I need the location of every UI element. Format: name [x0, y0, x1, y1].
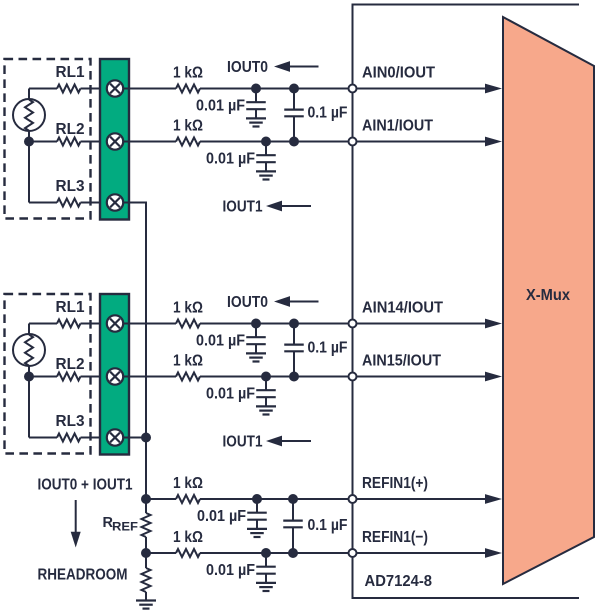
pin node AIN15/IOUT: [349, 373, 357, 381]
svg-text:IOUT0: IOUT0: [227, 294, 268, 311]
terminal 2.2: [107, 368, 123, 384]
capacitor 0.1 µF (rows 88.5-141.5): [293, 89, 295, 110]
wire row AIN1 to mux: [200, 141, 492, 143]
svg-text:AIN14/IOUT: AIN14/IOUT: [362, 300, 443, 317]
svg-text:REF: REF: [112, 520, 138, 534]
wire row AIN15 to mux: [200, 376, 492, 378]
wire RTD1 bottom to RL2 node: [28, 131, 30, 142]
svg-text:1 kΩ: 1 kΩ: [173, 529, 203, 546]
svg-text:1 kΩ: 1 kΩ: [173, 300, 203, 317]
wire RTD2 top to RL1: [28, 324, 30, 335]
ground (cap row 376.5): [256, 405, 276, 407]
resistor 1 kΩ (row AIN15): [176, 373, 200, 381]
junction REFIN1(+) on bus: [141, 494, 151, 504]
capacitor 0.01 µF (REFIN1+): [256, 499, 258, 513]
terminal block 2: [100, 294, 129, 455]
wire node to RL2: [29, 141, 57, 143]
node filter cap 0.01uF row88.5: [251, 84, 261, 94]
svg-text:AIN0/IOUT: AIN0/IOUT: [362, 65, 435, 82]
arrow IOUT1 (block 1): [266, 201, 282, 212]
resistor 1 kΩ (row AIN0): [176, 85, 200, 93]
svg-text:1 kΩ: 1 kΩ: [173, 353, 203, 370]
svg-text:REFIN1(+): REFIN1(+): [362, 475, 428, 492]
svg-text:RL1: RL1: [56, 299, 85, 316]
resistor RL3 (block 1): [57, 199, 81, 207]
wire terminal 1.3 to vertical bus: [123, 202, 146, 204]
node filter cap REFIN1(+): [252, 494, 262, 504]
pin node REFIN1(+): [349, 495, 357, 503]
node RTD1 bottom junction: [24, 137, 34, 147]
svg-text:IOUT0 + IOUT1: IOUT0 + IOUT1: [38, 477, 133, 494]
node 0.1uF bottom row376.5: [289, 372, 299, 382]
capacitor 0.1 µF (rows 323.5-376.5): [293, 324, 295, 345]
capacitor 0.01 µF (row 88.5): [255, 89, 257, 103]
svg-text:RL1: RL1: [56, 64, 85, 81]
wire REFIN1(-) row: [146, 552, 176, 554]
arrowhead into mux REFIN1(-): [485, 548, 502, 558]
resistor RHEADROOM (vertical): [142, 568, 151, 592]
wire RL1 to terminal 2.1: [81, 323, 107, 325]
resistor RL1 (block 1): [57, 85, 81, 93]
svg-text:0.1 µF: 0.1 µF: [308, 340, 348, 357]
junction terminal 2.3 / vertical bus: [141, 433, 151, 443]
resistor 1 kΩ (row AIN14): [176, 320, 200, 328]
capacitor 0.01 µF (REFIN1-): [265, 553, 267, 567]
arrowhead into mux REFIN1(+): [485, 494, 502, 504]
node filter cap 0.01uF row141.5: [261, 137, 271, 147]
terminal 1.1: [107, 80, 123, 96]
wire row AIN14 to mux: [200, 323, 492, 325]
multiplexer X-Mux: [503, 17, 594, 584]
resistor 1 kΩ (REFIN1-): [176, 549, 200, 557]
terminal 2.1: [107, 315, 123, 331]
wire RL3 to terminal 2.3: [81, 437, 107, 439]
svg-text:0.01 µF: 0.01 µF: [206, 386, 255, 403]
wire RL3 to terminal 1.3: [81, 202, 107, 204]
RTD sensor element 2 zigzag: [25, 335, 33, 366]
ground (cap row 141.5): [256, 170, 276, 172]
wire REFIN1(-) to mux: [200, 552, 492, 554]
resistor RL2 (block 1): [57, 138, 81, 146]
wire RTD1 top to RL1: [28, 89, 30, 100]
svg-text:IOUT0: IOUT0: [227, 59, 268, 76]
terminal 1.3: [107, 194, 123, 210]
capacitor 0.01 µF (row 376.5): [265, 377, 267, 391]
pin node AIN1/IOUT: [349, 138, 357, 146]
arrow IOUT1 (block 2): [266, 436, 282, 447]
resistor RREF: [142, 513, 151, 537]
arrowhead into mux row AIN1: [485, 137, 502, 147]
wire node down to RL3: [28, 377, 30, 438]
wire REFIN1(+) row: [146, 498, 176, 500]
wire RTD2 bottom to RL2 node: [28, 366, 30, 377]
arrow IOUT0 (block 1): [274, 61, 290, 72]
svg-text:RL2: RL2: [56, 121, 85, 138]
node 0.1uF top row88.5: [289, 84, 299, 94]
wire terminal 2.1 to 1k resistor: [123, 323, 176, 325]
wire terminal 1.1 to 1k resistor: [123, 88, 176, 90]
arrowhead into mux row AIN15: [485, 372, 502, 382]
ground (cap REFIN1+): [247, 528, 267, 530]
wire terminal 1.2 to 1k resistor: [123, 141, 176, 143]
svg-text:AIN15/IOUT: AIN15/IOUT: [362, 353, 441, 370]
svg-text:IOUT1: IOUT1: [223, 434, 263, 451]
RTD sensor 1 enclosure (dashed): [5, 59, 91, 219]
arrowhead into mux row AIN14: [485, 319, 502, 329]
terminal 2.3: [107, 429, 123, 445]
ADC AD7124-8 chip boundary: [353, 5, 580, 599]
wire RL2 to terminal 2.2: [81, 376, 107, 378]
ground (cap REFIN1-): [256, 582, 276, 584]
arrowhead into mux row AIN0: [485, 84, 502, 94]
junction REFIN1(-) on bus: [141, 548, 151, 558]
resistor RL3 (block 2): [57, 434, 81, 442]
wire terminal 2.2 to 1k resistor: [123, 376, 176, 378]
ground (cap row 88.5): [246, 117, 266, 119]
node filter cap REFIN1(-): [261, 548, 271, 558]
RTD sensor element 2 (circle): [13, 334, 45, 366]
wire RL2 to terminal 1.2: [81, 141, 107, 143]
ground (cap row 323.5): [246, 352, 266, 354]
resistor RL2 (block 2): [57, 373, 81, 381]
svg-text:0.01 µF: 0.01 µF: [206, 151, 255, 168]
arrow down (excitation currents): [75, 500, 77, 533]
svg-text:0.01 µF: 0.01 µF: [197, 508, 246, 525]
pin node AIN14/IOUT: [349, 320, 357, 328]
pin node REFIN1(−): [349, 549, 357, 557]
svg-text:0.01 µF: 0.01 µF: [206, 562, 255, 579]
svg-text:0.01 µF: 0.01 µF: [196, 98, 245, 115]
wire REFIN- node to RHEADROOM resistor: [145, 553, 147, 568]
resistor RL1 (block 2): [57, 320, 81, 328]
svg-text:1 kΩ: 1 kΩ: [173, 65, 203, 82]
node 0.1uF top REFIN1(+): [288, 494, 298, 504]
wire RL1 to terminal 1.1: [81, 88, 107, 90]
node 0.1uF bottom row141.5: [289, 137, 299, 147]
svg-text:RL2: RL2: [56, 356, 85, 373]
svg-text:RL3: RL3: [56, 413, 85, 430]
ground (bottom): [136, 599, 156, 601]
svg-text:0.1 µF: 0.1 µF: [308, 105, 348, 122]
svg-text:IOUT1: IOUT1: [223, 199, 263, 216]
svg-text:AD7124-8: AD7124-8: [365, 573, 433, 590]
node 0.1uF top row323.5: [289, 319, 299, 329]
svg-text:REFIN1(−): REFIN1(−): [362, 529, 428, 546]
terminal 1.2: [107, 133, 123, 149]
node filter cap 0.01uF row323.5: [251, 319, 261, 329]
node 0.1uF bottom REFIN1(-): [288, 548, 298, 558]
wire REFIN1(+) to mux: [200, 498, 492, 500]
arrow IOUT0 (block 2): [274, 296, 290, 307]
svg-text:1 kΩ: 1 kΩ: [173, 475, 203, 492]
svg-text:0.01 µF: 0.01 µF: [196, 333, 245, 350]
pin node AIN0/IOUT: [349, 85, 357, 93]
capacitor 0.1 µF (REFIN rows): [292, 499, 294, 521]
node filter cap 0.01uF row376.5: [261, 372, 271, 382]
capacitor 0.01 µF (row 323.5): [255, 324, 257, 338]
terminal block 1: [100, 59, 129, 220]
wire RREF to REFIN1(-) node: [145, 537, 147, 553]
wire terminal 2.3 to vertical bus: [123, 437, 146, 439]
resistor 1 kΩ (row AIN1): [176, 138, 200, 146]
svg-text:1 kΩ: 1 kΩ: [173, 118, 203, 135]
svg-text:RHEADROOM: RHEADROOM: [38, 567, 128, 584]
RTD sensor element 1 (circle): [13, 99, 45, 131]
svg-text:AIN1/IOUT: AIN1/IOUT: [362, 118, 433, 135]
node RTD2 bottom junction: [24, 372, 34, 382]
capacitor 0.01 µF (row 141.5): [265, 142, 267, 156]
wire node to RL2: [29, 376, 57, 378]
wire RHEADROOM resistor to ground: [145, 592, 147, 601]
svg-text:0.1 µF: 0.1 µF: [308, 517, 348, 534]
svg-text:RL3: RL3: [56, 178, 85, 195]
svg-text:X-Mux: X-Mux: [526, 287, 570, 304]
wire row AIN0 to mux: [200, 88, 492, 90]
resistor 1 kΩ (REFIN1+): [176, 495, 200, 503]
RTD sensor element 1 zigzag: [25, 100, 33, 131]
wire node down to RL3: [28, 142, 30, 203]
RTD sensor 2 enclosure (dashed): [5, 294, 91, 454]
